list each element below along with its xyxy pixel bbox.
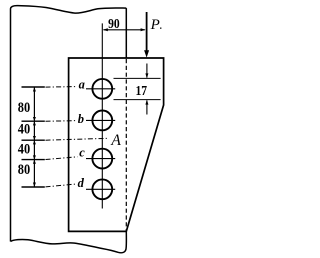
svg-text:a: a xyxy=(79,78,85,92)
svg-text:40: 40 xyxy=(18,142,30,158)
svg-text:80: 80 xyxy=(18,100,30,116)
svg-text:40: 40 xyxy=(18,121,30,137)
svg-text:A: A xyxy=(110,132,121,149)
svg-text:P: P xyxy=(150,17,160,33)
svg-text:c: c xyxy=(79,145,85,159)
svg-text:17: 17 xyxy=(136,84,148,99)
svg-text:90: 90 xyxy=(108,17,120,32)
svg-text:d: d xyxy=(78,176,85,190)
svg-text:80: 80 xyxy=(18,162,30,178)
svg-text:b: b xyxy=(78,112,84,126)
